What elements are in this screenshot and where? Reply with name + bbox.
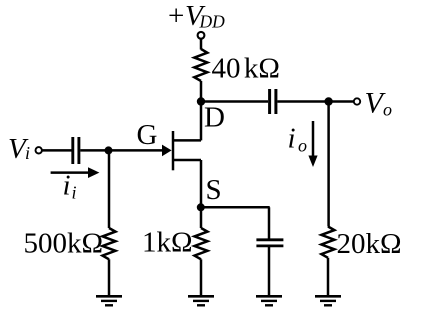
svg-text:i: i [63,170,71,202]
svg-text:o: o [383,100,392,120]
svg-text:20kΩ: 20kΩ [337,228,402,260]
svg-text:1kΩ: 1kΩ [142,227,193,259]
svg-text:i: i [25,143,30,163]
svg-text:+: + [168,0,184,32]
svg-text:500kΩ: 500kΩ [24,228,104,260]
svg-text:G: G [137,119,158,151]
svg-text:i: i [288,123,296,155]
svg-text:D: D [204,102,225,134]
svg-text:o: o [298,135,307,155]
svg-text:S: S [206,174,222,206]
svg-text:DD: DD [199,12,226,32]
svg-text:i: i [72,182,77,202]
svg-text:40kΩ: 40kΩ [212,52,280,84]
